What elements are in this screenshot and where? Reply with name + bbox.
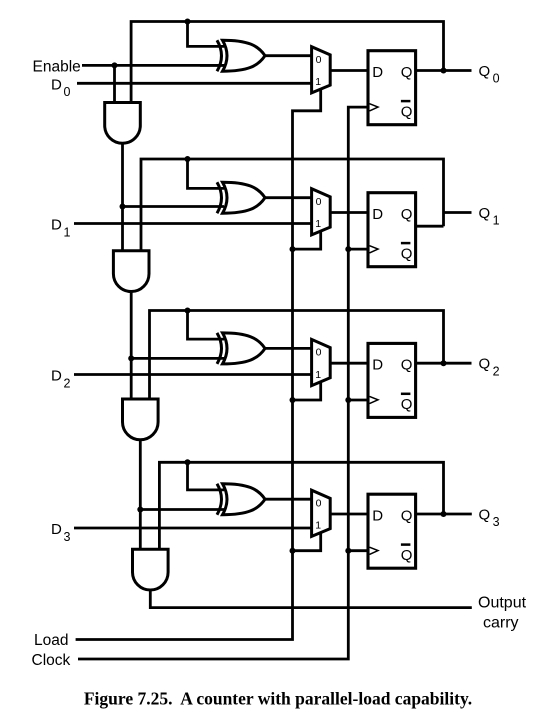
svg-text:Q: Q [401, 64, 413, 81]
svg-text:Clock: Clock [32, 652, 71, 669]
svg-text:D: D [51, 217, 62, 234]
wire mux M3 output to FF D input [330, 513, 368, 516]
svg-text:Enable: Enable [33, 59, 81, 76]
wire mux M2 output to FF D input [330, 362, 368, 365]
wire chain to XOR U1 bottom input [123, 205, 225, 208]
wire XOR U1 output to mux 0 input [265, 196, 312, 199]
wire FF1 Q output [416, 225, 444, 228]
svg-text:D: D [372, 357, 383, 374]
node Clock bus junction stage 3 [345, 548, 351, 554]
wire clock tap to FF3 [348, 549, 368, 552]
mux M2 [312, 339, 331, 385]
svg-text:D: D [372, 206, 383, 223]
svg-text:Q: Q [479, 506, 491, 523]
svg-text:D: D [372, 508, 383, 525]
wire D1 line to mux 1 input [74, 222, 312, 225]
svg-text:0: 0 [316, 497, 322, 509]
node feedback junction stage 0 [185, 19, 191, 25]
wire XOR top input stage 0 [188, 22, 225, 47]
wire mux M3 select tap [293, 533, 321, 551]
node feedback junction stage 2 [185, 308, 191, 314]
wire Enable drop to AND A0 [113, 65, 116, 103]
svg-text:1: 1 [64, 225, 71, 239]
wire FF0 Q output [416, 69, 472, 72]
node carry-chain junction stage 3 [137, 507, 143, 513]
xor gate U2 [217, 333, 222, 364]
svg-text:2: 2 [64, 376, 71, 390]
svg-text:Q: Q [401, 206, 413, 223]
flip-flop FF0 [368, 51, 416, 125]
wire XOR U0 bottom input from Enable (already drawn as Enable line) [200, 64, 224, 67]
node Load bus junction stage 1 [290, 246, 296, 252]
wire mux M0 output to FF D input [330, 69, 368, 72]
wire chain to XOR U2 bottom input [131, 357, 224, 360]
and gate A2 [123, 399, 159, 440]
wire Clock bus [78, 107, 368, 659]
wire AND A0 output chain [121, 143, 124, 252]
wire clock tap to FF1 [348, 248, 368, 251]
and gate A1 [113, 251, 149, 292]
svg-text:Q: Q [401, 245, 413, 262]
node Q2 output junction [441, 360, 447, 366]
svg-text:D: D [51, 368, 62, 385]
node carry-chain junction stage 1 [120, 204, 126, 210]
svg-text:0: 0 [316, 54, 322, 66]
svg-text:0: 0 [316, 196, 322, 208]
node feedback junction stage 1 [185, 156, 191, 162]
mux M3 [312, 490, 331, 536]
svg-text:Load: Load [34, 632, 68, 649]
wire FF3 Q output [416, 513, 472, 516]
svg-text:1: 1 [315, 76, 321, 88]
flip-flop FF3 [368, 494, 416, 568]
wire Q0 feedback line [131, 22, 443, 104]
wire mux M1 output to FF D input [330, 211, 368, 214]
flip-flop FF1 [368, 193, 416, 267]
wire D3 line to mux 1 input [74, 527, 312, 530]
wire mux M0 select / Load bus start [76, 90, 321, 640]
svg-text:0: 0 [316, 347, 322, 359]
svg-text:1: 1 [315, 218, 321, 230]
node Clock bus junction stage 1 [345, 246, 351, 252]
xor gate U1 [217, 182, 222, 213]
node feedback junction stage 3 [185, 459, 191, 465]
wire XOR top input stage 2 [188, 311, 225, 340]
wire D0 line to mux 1 input [77, 82, 312, 85]
wire XOR top input stage 1 [188, 159, 225, 188]
svg-text:Q: Q [401, 357, 413, 374]
and gate A0 [105, 103, 141, 144]
mux M1 [312, 189, 331, 235]
xor gate U0 [217, 40, 222, 71]
node Load bus junction stage 2 [290, 397, 296, 403]
wire mux M2 select tap [293, 382, 321, 400]
wire D2 line to mux 1 input [74, 373, 312, 376]
wire Q3 feedback line [159, 462, 443, 550]
wire AND A3 output to Output carry [150, 589, 472, 607]
node Q3 output junction [441, 511, 447, 517]
svg-text:Output: Output [478, 595, 527, 612]
svg-text:Q: Q [401, 508, 413, 525]
svg-text:1: 1 [315, 369, 321, 381]
wire Q1 output stub [444, 211, 472, 214]
svg-text:3: 3 [64, 530, 71, 544]
node Enable junction [112, 62, 118, 68]
wire AND A2 output chain [139, 439, 142, 550]
svg-text:Q: Q [479, 205, 491, 222]
wire Enable line [82, 64, 224, 67]
node Clock bus junction stage 2 [345, 397, 351, 403]
svg-text:Q: Q [401, 103, 413, 120]
svg-text:D: D [51, 521, 62, 538]
wire Q2 feedback line [150, 311, 444, 401]
wire XOR top input stage 3 [188, 462, 225, 490]
wire FF2 Q output [416, 362, 472, 365]
svg-text:3: 3 [493, 515, 500, 529]
svg-text:1: 1 [315, 520, 321, 532]
svg-text:carry: carry [483, 614, 519, 631]
node carry-chain junction stage 2 [128, 355, 134, 361]
and gate A3 [133, 549, 169, 590]
svg-text:0: 0 [64, 85, 71, 99]
flip-flop FF2 [368, 343, 416, 417]
node Load bus junction stage 3 [290, 548, 296, 554]
svg-text:0: 0 [493, 72, 500, 86]
svg-text:Q: Q [401, 396, 413, 413]
svg-text:Q: Q [479, 356, 491, 373]
svg-text:D: D [372, 64, 383, 81]
wire XOR U0 output to mux 0 input [265, 54, 312, 57]
mux M0 [312, 47, 331, 93]
wire AND A1 output chain [130, 291, 133, 400]
wire mux M1 select tap [293, 232, 321, 250]
svg-text:Q: Q [401, 547, 413, 564]
svg-text:2: 2 [493, 364, 500, 378]
svg-text:1: 1 [493, 214, 500, 228]
wire Q1 feedback line [141, 159, 444, 252]
svg-text:Q: Q [479, 63, 491, 80]
wire clock tap to FF2 [348, 399, 368, 402]
svg-text:D: D [51, 77, 62, 94]
wire XOR U2 output to mux 0 input [265, 347, 312, 350]
wire XOR U3 output to mux 0 input [265, 498, 312, 501]
xor gate U3 [217, 484, 222, 515]
wire chain to XOR U3 bottom input [140, 508, 224, 511]
node Q0 output junction [441, 68, 447, 74]
svg-text:Figure 7.25. A counter with p: Figure 7.25. A counter with parallel-loa… [84, 689, 472, 709]
